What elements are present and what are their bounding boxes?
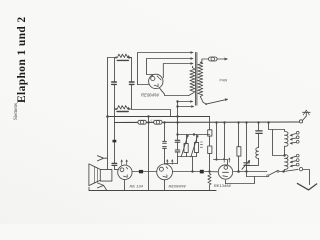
wire: cap to tube V3 [143, 171, 157, 173]
wire: feed vertical x177 from T1 taps through buses to cluster [177, 102, 179, 135]
tube V3 envelope [157, 164, 173, 180]
wire L2g: second tap line to transformer (arrow) [147, 59, 192, 77]
transformer T2 link [284, 146, 286, 154]
junction dot cluster rail mid [193, 133, 195, 135]
wire: terminal to earth [303, 170, 310, 185]
junction dot x217.6 [215, 158, 217, 160]
tap arrow T2e [290, 161, 296, 163]
tap terminal circle T2a [296, 131, 299, 134]
tube V1 cathode [151, 76, 155, 80]
tap terminal circle T2b [296, 136, 299, 139]
resistor R6 on x239 [237, 123, 241, 172]
coil L1 (antenna coupling coil with core bar) [108, 54, 132, 60]
tick marks x201 [200, 142, 202, 147]
block capacitor C4 (solid) [139, 170, 143, 173]
svg-text:RE084/W: RE084/W [169, 184, 187, 189]
wire: terminal to antenna [302, 112, 306, 120]
wire: bus2 drop to grid chain x114 [114, 123, 116, 140]
title Elaphon 1 und 2 (rotated) [16, 16, 28, 103]
bottom bus wire [89, 190, 216, 192]
transformer T1 right winding [198, 62, 203, 96]
junction dot cluster rail left [176, 133, 178, 135]
wire: tube V4 cathode down to y183.7 wire [225, 180, 227, 183]
choke coil L3 below junction [208, 172, 216, 191]
wire: y183.7 run to riser [226, 177, 255, 184]
wire: tube V2 cathode to bottom bus [124, 180, 126, 191]
wire: T1 left winding bottom lead [189, 93, 193, 95]
coil L4 on x259 (looped) [256, 148, 259, 159]
junction dot T2 mid [283, 154, 285, 156]
bus2 horizontal wire [115, 121, 300, 124]
junction dot bus2 x164 [163, 121, 165, 123]
transformer T2 winding upper [285, 130, 289, 147]
tube V1 grid dashes [157, 76, 161, 80]
junction dot x246.7 on anode line [245, 170, 247, 172]
wire: tube V4 anode right to switch line [234, 171, 267, 173]
junction dot x192.8 [191, 170, 193, 172]
fuse F2 on bus2 [138, 120, 146, 124]
capacitor C3 (horizontal plates) [112, 142, 118, 169]
wire: cap to tube V4 [204, 171, 217, 173]
wire: cluster bottom rail [178, 156, 197, 158]
block capacitor C8 (solid) on x114 [113, 140, 117, 143]
tube V1 envelope [149, 74, 163, 88]
fuse F3 on bus2 [154, 120, 162, 124]
wire: fuse to output arrow [217, 58, 225, 60]
tap arrow at node A [129, 57, 132, 59]
transformer T2 feed from bus2 [269, 123, 285, 130]
tap arrow T2f [290, 165, 296, 167]
capacitor C1 [112, 58, 117, 123]
earth symbol (chevron) [297, 183, 316, 190]
junction dot bus1 left [106, 115, 109, 118]
wire L1g: grid line from top-left corner to transformer (arrow) [138, 53, 192, 85]
tap stub with junction dot (T1 bottom, upper) [178, 101, 192, 103]
heater arrows above tube V2 [121, 160, 128, 165]
svg-text:RE134/W: RE134/W [214, 183, 232, 188]
tube V4 electrodes [223, 166, 229, 177]
resistor R5a on x210 line [208, 117, 212, 137]
wire: tube V1 cathode down and right to transformer winding [159, 88, 189, 96]
wire: T1 right winding bottom lead hook [200, 97, 206, 105]
capacitor C2 [129, 58, 134, 110]
junction dot bus2 x259 [257, 121, 259, 123]
tap terminal circle T2e [296, 159, 299, 162]
wire: T1 left winding top lead [191, 66, 193, 67]
earth terminal circle [299, 167, 302, 170]
wire: coil bottom left jog [247, 158, 259, 165]
wire: grid feed to tube V4 [214, 160, 228, 165]
resistor R5b on x210 line [208, 136, 212, 171]
tap arrow T2c [290, 142, 296, 144]
block capacitor C5 (solid) [200, 170, 204, 174]
wire: cluster top rail [178, 134, 210, 136]
junction dot bus2 x224 [223, 121, 225, 123]
wire: T2 inner vertical [273, 130, 285, 156]
tap terminal circle T2c [296, 140, 299, 143]
bottom bus left hook [88, 187, 90, 190]
svg-text:P4W: P4W [220, 79, 228, 83]
svg-text:RE084/W: RE084/W [141, 93, 160, 98]
tube V2 envelope [118, 165, 132, 179]
wire: grid wire y163.7 [165, 163, 178, 165]
wire: left vertical rail from antenna coil to speaker [107, 58, 109, 170]
wire L3g: third tap line to transformer (arrow) [163, 64, 191, 78]
transformer T1 core [196, 52, 197, 105]
tap terminal circle T2d [296, 154, 299, 157]
capacitor C7 on x259 [256, 123, 262, 148]
junction dot bus1 x177 [176, 115, 178, 117]
tap terminal circle T2f [296, 163, 299, 166]
junction dot bus1 x148 [147, 115, 149, 117]
wire: grid line corner into tube V1 left [138, 84, 149, 86]
heater arrow above tube V4 [223, 158, 230, 163]
wire: long vertical x148 from bus1 to bottom bus [148, 117, 150, 191]
tube V3 electrodes [159, 167, 167, 178]
rheostat R2 (variable, arrow) [181, 134, 188, 156]
junction dot bus2 x177 [176, 121, 178, 123]
wire: tube V2 to coupling cap [132, 171, 139, 173]
antenna symbol [303, 110, 311, 115]
coil L2 (grid tank coil with core bar) [115, 106, 132, 112]
tap arrow T2d [290, 156, 296, 159]
tap arrow T2a [290, 133, 296, 136]
antenna terminal circle [299, 120, 302, 123]
heater arrows above tube V3 [166, 159, 173, 164]
tap arrow T2b [290, 138, 296, 140]
input jack chevron [97, 156, 107, 161]
wire: T1 right winding top lead to fuse [200, 59, 208, 62]
bus1 horizontal wire [108, 116, 210, 118]
junction dot bus2 x268 [267, 121, 269, 123]
junction dot bus2 x239 [237, 121, 239, 123]
loudspeaker [89, 164, 112, 191]
tube V1 anode [154, 84, 158, 87]
junction dot x238.9 on anode line [237, 170, 240, 173]
wire: drop to tube row junction [192, 157, 194, 172]
wire: lower line to switch left contact [247, 176, 268, 178]
junction dot bus2 x247 [245, 121, 247, 123]
tube V2 electrodes [120, 167, 128, 177]
transformer T1 left winding [190, 68, 195, 94]
wire: switch to output terminal [279, 169, 298, 171]
grid resistor R4 on x164 line [163, 123, 167, 164]
wire: filament feed vertical x224 [224, 123, 226, 158]
wire: tube V3 cathode to bottom bus [164, 180, 166, 191]
rheostat R3 (variable, arrow) [191, 135, 199, 157]
svg-text:0,5: 0,5 [151, 118, 156, 122]
resistor R1 [175, 135, 180, 157]
transformer T2 winding lower [285, 155, 289, 172]
maker Siemens (rotated) [14, 103, 19, 120]
junction dot x283.3 [282, 170, 284, 172]
tap stub with junction dot (T1 bottom, lower) [178, 106, 193, 108]
switch S1 [267, 170, 279, 177]
wire: tube V3 to coupling cap 2 with junction [173, 171, 200, 173]
svg-text:RE 134: RE 134 [130, 183, 144, 188]
tube V4 envelope [218, 165, 232, 179]
wire: filament feed vertical x217 [216, 123, 218, 160]
wire: L2/C2 node to bus1 [132, 110, 171, 117]
wire: drop from cluster bottom to grid wire [177, 157, 179, 164]
junction dot bus2 x148 [147, 121, 149, 123]
junction dot bus2 x217 [215, 121, 217, 123]
variable capacitor C6 with arrow [242, 123, 250, 177]
junction dot x209.8 tube row [208, 170, 210, 172]
fuse F1 [209, 57, 218, 61]
